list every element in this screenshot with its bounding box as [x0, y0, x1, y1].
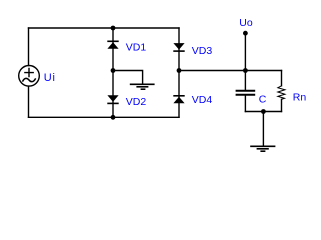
svg-text:VD2: VD2	[126, 96, 147, 108]
svg-text:VD3: VD3	[192, 45, 213, 57]
svg-text:C: C	[259, 94, 267, 106]
svg-text:Ui: Ui	[44, 72, 56, 84]
svg-text:VD4: VD4	[192, 94, 213, 106]
svg-text:Rn: Rn	[293, 91, 307, 103]
svg-text:VD1: VD1	[126, 42, 147, 54]
svg-text:Uo: Uo	[239, 17, 253, 29]
